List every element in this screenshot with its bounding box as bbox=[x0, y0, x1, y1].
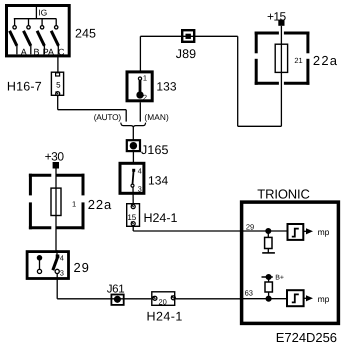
svg-text:3: 3 bbox=[138, 184, 142, 193]
svg-text:63: 63 bbox=[245, 289, 253, 298]
svg-text:TRIONIC: TRIONIC bbox=[257, 186, 310, 201]
svg-text:22a: 22a bbox=[88, 197, 112, 212]
svg-text:+15: +15 bbox=[267, 10, 287, 24]
svg-text:H24-1: H24-1 bbox=[147, 309, 183, 323]
svg-text:PA: PA bbox=[43, 47, 54, 57]
svg-text:5: 5 bbox=[56, 81, 61, 90]
svg-text:1: 1 bbox=[143, 73, 147, 82]
svg-text:4: 4 bbox=[138, 166, 142, 175]
svg-text:2: 2 bbox=[143, 93, 147, 102]
svg-text:mp: mp bbox=[318, 294, 330, 304]
svg-text:1: 1 bbox=[72, 199, 76, 208]
svg-text:E724D256: E724D256 bbox=[276, 330, 337, 345]
svg-text:B: B bbox=[33, 47, 39, 57]
svg-text:133: 133 bbox=[156, 80, 177, 94]
svg-text:C: C bbox=[58, 47, 65, 57]
svg-text:29: 29 bbox=[74, 260, 89, 275]
svg-text:B+: B+ bbox=[275, 275, 284, 282]
svg-text:245: 245 bbox=[75, 26, 96, 40]
svg-text:15: 15 bbox=[127, 213, 136, 222]
svg-text:J165: J165 bbox=[141, 143, 169, 157]
svg-text:J61: J61 bbox=[107, 284, 125, 296]
svg-text:(MAN): (MAN) bbox=[144, 112, 169, 122]
svg-text:4: 4 bbox=[60, 253, 64, 262]
svg-text:A: A bbox=[21, 47, 27, 57]
svg-text:mp: mp bbox=[318, 227, 330, 237]
svg-text:29: 29 bbox=[246, 223, 254, 232]
svg-text:134: 134 bbox=[148, 173, 169, 187]
svg-text:H24-1: H24-1 bbox=[144, 211, 178, 225]
svg-text:(AUTO): (AUTO) bbox=[94, 112, 122, 122]
svg-text:21: 21 bbox=[294, 56, 302, 65]
svg-text:22a: 22a bbox=[313, 53, 338, 68]
svg-text:20: 20 bbox=[159, 297, 167, 306]
svg-text:H16-7: H16-7 bbox=[7, 80, 42, 94]
svg-text:J89: J89 bbox=[176, 47, 196, 61]
svg-text:IG: IG bbox=[38, 8, 47, 18]
svg-text:+30: +30 bbox=[45, 150, 65, 164]
svg-text:3: 3 bbox=[60, 269, 64, 278]
